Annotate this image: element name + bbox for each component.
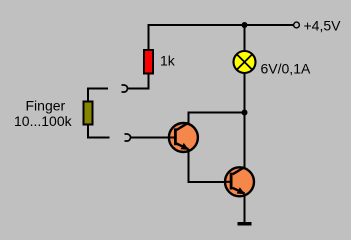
svg-text:+4,5V: +4,5V [304, 18, 342, 34]
resistor R1 1k [144, 50, 153, 74]
wire olive resistor top lead [88, 89, 108, 101]
node junction top rail [242, 22, 248, 28]
resistor finger 10...100k [84, 102, 93, 125]
wire Q1 collector to node [188, 113, 244, 124]
upper touch contact hook [122, 85, 128, 92]
wire below R1 to upper contact [127, 74, 148, 89]
ground [238, 222, 252, 226]
svg-text:1k: 1k [160, 53, 176, 69]
wire lamp to Q2 collector [244, 73, 246, 168]
svg-text:10...100k: 10...100k [14, 113, 73, 129]
lamp 6V/0,1A [234, 51, 256, 73]
svg-text:Finger: Finger [26, 97, 66, 113]
terminal +4,5V open circle [294, 22, 300, 28]
node junction mid rail [242, 110, 248, 116]
wire rail node to lamp [244, 25, 246, 51]
transistor Q1 [169, 123, 198, 152]
svg-text:6V/0,1A: 6V/0,1A [261, 61, 311, 77]
lower touch contact hook [125, 134, 131, 141]
wire lower contact to Q1 base [131, 137, 169, 139]
wire Q2 emitter to ground [244, 194, 246, 223]
wire olive resistor bottom lead [88, 125, 110, 138]
transistor Q2 [225, 167, 255, 196]
wire Q1 emitter to Q2 base [188, 149, 224, 182]
wire top rail from R1 to +4.5V terminal [149, 25, 294, 49]
